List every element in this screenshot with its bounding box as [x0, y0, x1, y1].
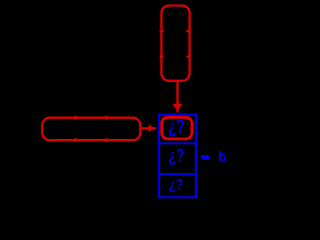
bottom border — [158, 196, 197, 198]
left border — [158, 114, 160, 199]
tick divider 1 on column vector (right edge) — [186, 30, 190, 32]
result vector b table (blue, 3 cells) — [158, 114, 197, 199]
row vector of matrix A (horizontal rounded box) — [42, 118, 140, 140]
arrow from column vector down to result cell — [172, 80, 182, 112]
right border — [195, 114, 197, 199]
arrow from row vector right to result cell — [140, 125, 156, 132]
red highlight around active cell b1 — [162, 117, 192, 139]
column vector x (vertical rounded box) — [161, 6, 189, 81]
tick divider 2 on column vector (right edge) — [186, 56, 190, 58]
equals sign — [201, 155, 209, 159]
top border — [158, 114, 197, 116]
tick divider 2 on column vector (left edge) — [160, 56, 164, 58]
tick divider 1 on row vector (bottom edge) — [75, 138, 77, 142]
divider row1/row2 — [158, 142, 197, 144]
tick divider 1 on row vector (top edge) — [75, 116, 77, 120]
tick divider 2 on row vector (bottom edge) — [106, 138, 108, 142]
svg-text:¿?: ¿? — [168, 114, 184, 138]
tick divider 1 on column vector (left edge) — [160, 30, 164, 32]
svg-text:b: b — [218, 149, 226, 165]
svg-text:¿?: ¿? — [169, 146, 184, 167]
tick divider 2 on row vector (top edge) — [106, 116, 108, 120]
svg-text:¿?: ¿? — [169, 175, 183, 193]
divider row2/row3 — [158, 173, 197, 175]
